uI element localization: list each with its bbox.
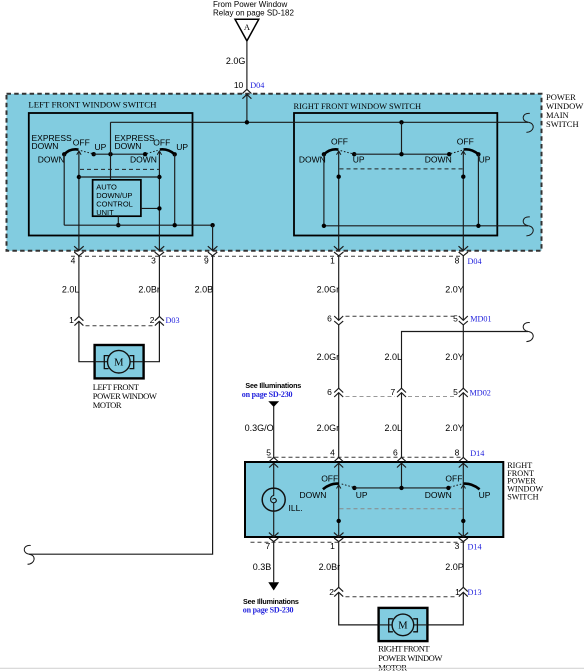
wire labels row 2 [317,352,464,362]
node feed junction [245,120,249,124]
node R2 pivot dot [461,175,465,179]
wire 0.3B drop [273,542,275,583]
svg-text:2.0L: 2.0L [62,285,80,295]
label: See Illuminations top [242,381,302,399]
svg-text:LEFT FRONT WINDOW SWITCH: LEFT FRONT WINDOW SWITCH [28,100,157,110]
wire MD02-6 to D14 [338,393,340,458]
exit cap pin 4 D04 [74,252,83,256]
node R2 down contact [447,152,451,156]
motor M2 right front power window motor [379,608,428,641]
svg-text:1: 1 [330,256,335,266]
node R2 up contact [476,152,480,156]
connector MD02 dashed a [346,396,396,398]
label EXPRESS DOWN s2 [115,133,155,151]
svg-text:RIGHT FRONT: RIGHT FRONT [378,643,430,653]
exit cap pin 1 bottom box [334,538,343,542]
svg-text:POWER WINDOW: POWER WINDOW [378,653,442,663]
wire right bottom bus [324,225,528,227]
continuation squiggle top bus [523,113,533,132]
node bus pin9 junction [210,223,214,227]
wire left center vertical [110,122,112,180]
svg-text:9: 9 [204,256,209,266]
wire R1 pivot drop [338,152,340,250]
mechanical link dashed bottom box [340,508,463,510]
svg-text:2: 2 [329,587,334,597]
svg-text:MOTOR: MOTOR [378,662,407,672]
wire MD01-5 to MD02 [462,325,464,388]
label: POWER WINDOW MAIN SWITCH [546,92,583,129]
svg-text:DOWN: DOWN [130,154,157,164]
connector D03 pin1 arrow [74,321,83,325]
wire 2.0L branch [402,332,529,389]
svg-text:4: 4 [71,256,76,266]
connector MD02 cap x338.7 [334,388,343,392]
svg-text:2.0Br: 2.0Br [319,562,341,572]
exit cap pin 1 D04 [334,252,343,256]
wire AUTO right link [141,207,160,209]
svg-text:UP: UP [176,142,188,152]
pivot caret S1 [77,151,81,155]
dotted throw B [450,484,462,487]
right front power window switch box [245,462,503,537]
pin labels D14 top [266,447,459,457]
entry arrow pin 8 D14 top [459,463,468,467]
svg-text:D14: D14 [468,542,482,551]
wire D13-1 to motor [427,592,463,625]
exit cap pin 3 bottom box [459,538,468,542]
label: See Illuminations bottom [243,597,299,614]
lamp ILL wire bottom [273,503,275,537]
pivot caret R1 [337,151,341,155]
connector pin 10 entry arrow [242,94,251,98]
svg-text:6: 6 [393,447,398,457]
node R1 pivot dot [337,175,341,179]
svg-text:DOWN: DOWN [425,490,452,500]
dotted throw A [342,484,354,487]
svg-text:0.3G/O: 0.3G/O [245,423,274,433]
switch lever arc A [323,484,339,490]
wire A up to B down [354,487,448,489]
dotted throw S1 [81,151,93,154]
svg-text:UP: UP [479,154,491,164]
svg-text:0.3B: 0.3B [253,562,272,572]
label EXPRESS DOWN s1 [32,133,72,151]
svg-text:5: 5 [453,313,458,323]
label: RIGHT FRONT POWER WINDOW MOTOR [378,643,442,672]
left front window switch inner box [29,113,193,236]
svg-text:D14: D14 [470,449,484,458]
svg-text:M: M [398,621,408,632]
wire pin1 to MD01 [338,256,340,320]
node R1 down contact [322,152,326,156]
exit arrow pin 1 bottom box [334,533,344,537]
connector dashed line D04 row [71,255,463,257]
svg-text:2.0Gr: 2.0Gr [317,352,340,362]
svg-text:7: 7 [390,387,395,397]
connector pin 10 entry cap [242,89,251,93]
lamp ILL bulb [262,488,285,511]
entry cap pin 4 D14 top [334,457,343,461]
mechanical link dashed right box [340,168,463,170]
svg-text:OFF: OFF [153,138,170,148]
connector D13 pin1 arrow [459,592,468,596]
svg-text:SWITCH: SWITCH [507,493,538,502]
svg-text:MD02: MD02 [470,388,491,397]
mechanical link dashed left box [80,168,159,170]
wire D14-3 to D13 [462,542,464,588]
svg-text:UP: UP [479,490,491,500]
connector D13 dashed [346,596,457,598]
connector MD01 dashed [346,315,457,317]
node bus up2 junction [173,223,177,227]
wire S2 up drop [174,154,176,225]
svg-text:1: 1 [69,315,74,325]
exit cap pin 9 D04 [208,252,217,256]
switch lever arc B [463,484,480,490]
wire right center drop [401,122,403,154]
connector D13 pin2 arrow [334,592,343,596]
connector D14 bottom dashed [251,541,467,543]
node A up contact [352,486,356,490]
svg-text:DOWN: DOWN [300,490,327,500]
svg-text:10: 10 [234,80,244,90]
wire S1 pivot drop [78,152,80,250]
node pivot link right [157,175,161,179]
svg-text:OFF: OFF [331,137,348,147]
svg-text:DOWN: DOWN [299,154,326,164]
pivot caret R2 [461,151,465,155]
wire MD01-6 to MD02 [338,325,340,388]
connector MD02 cap x463.3 [459,388,468,392]
svg-text:3: 3 [151,256,156,266]
svg-text:on page SD-230: on page SD-230 [243,605,294,614]
page separator line [0,667,584,669]
svg-text:Relay on page SD-182: Relay on page SD-182 [213,8,294,17]
pin labels D04 row [71,256,460,266]
connector MD01 pin6 cap [334,321,343,325]
wire AUTO bottom drop [117,216,119,225]
node left center junction [108,152,112,156]
entry arrow pin 4 D14 top [334,463,343,467]
svg-text:3: 3 [455,541,460,551]
wire labels row 1 [62,285,464,295]
svg-text:OFF: OFF [457,137,474,147]
svg-text:on page SD-230: on page SD-230 [242,390,293,399]
svg-text:2.0P: 2.0P [445,562,464,572]
node bottom pivot B dot [461,519,465,523]
svg-text:UP: UP [95,142,107,152]
wire feed from relay [246,41,248,89]
wire S2 pivot drop [158,152,160,250]
wire S1 up to S2 down [94,153,145,155]
node S2 down contact [143,152,147,156]
svg-text:D03: D03 [166,316,180,325]
wire pin6 center drop [401,463,403,488]
switch lever arc R1 [324,149,339,154]
svg-text:OFF: OFF [321,473,338,483]
connector D03 pin1 cap [74,316,83,320]
svg-text:8: 8 [455,256,460,266]
wire R2 up drop [477,154,479,226]
svg-text:1: 1 [330,541,335,551]
wire pin3 to D03 [158,256,160,317]
power window main switch box [7,94,542,251]
svg-text:DOWN: DOWN [115,141,142,151]
wire D03-1 to motor [79,321,104,361]
node AUTO bottom junction [116,223,120,227]
lamp ILL wire top [273,463,275,496]
node bottom pivot A dot [337,519,341,523]
entry arrow pin 5 D14 top [269,463,278,467]
wire pin 9 drop inside [212,225,214,250]
node right center junction top [399,120,403,124]
svg-text:DOWN: DOWN [38,154,65,164]
connector MD02 arrow x338.7 [334,393,343,397]
continuation squiggle 2.0L [523,323,533,342]
svg-text:2.0Y: 2.0Y [445,352,464,362]
entry arrow pin 6 D14 top [397,463,406,467]
pivot caret A [337,485,341,489]
wire R1 up to R2 down [354,153,449,155]
wire top bus [111,121,529,123]
svg-text:2.0B: 2.0B [195,285,214,295]
svg-text:2.0Y: 2.0Y [445,285,464,295]
svg-text:ILL.: ILL. [289,503,303,513]
node AUTO right junction [157,206,161,210]
svg-text:UNIT: UNIT [96,208,114,217]
svg-text:6: 6 [327,387,332,397]
wire pin9 long drop [29,256,213,554]
exit arrow pin 4 D04 [74,246,84,250]
svg-text:2.0L: 2.0L [384,352,402,362]
arrow source illumination [268,401,279,407]
svg-text:DOWN: DOWN [425,154,452,164]
connector D14 top dashed [268,456,463,458]
pin labels D14 bottom [265,541,459,551]
svg-text:5: 5 [453,387,458,397]
connector D03 pin2 arrow [155,321,164,325]
svg-text:1: 1 [455,587,460,597]
wire pin4 to D03 [78,256,80,317]
svg-text:5: 5 [266,447,271,457]
svg-text:UP: UP [356,490,368,500]
svg-text:OFF: OFF [73,138,90,148]
connector triangle A [235,19,259,41]
node S1 up contact [92,152,96,156]
wire MD02-7 to D14 [401,393,403,458]
node B down contact [446,486,450,490]
svg-text:2.0Gr: 2.0Gr [317,423,340,433]
wire feed inside box [246,94,248,122]
connector MD02 arrow x401.5 [397,393,406,397]
exit arrow pin 7 bottom box [269,533,279,537]
svg-text:D04: D04 [250,81,264,90]
svg-text:2.0Br: 2.0Br [138,285,160,295]
continuation squiggle left end [24,545,34,564]
wire pin4 drop pivot A [338,463,340,537]
connector D03 dashed [86,325,153,327]
svg-text:SWITCH: SWITCH [546,119,579,129]
svg-text:6: 6 [327,313,332,323]
exit arrow pin 3 D04 [155,246,165,250]
svg-text:MOTOR: MOTOR [93,400,122,410]
node right center junction [399,152,403,156]
connector MD02 cap x401.5 [397,388,406,392]
exit cap pin 8 D04 [459,252,468,256]
wire left bottom bus [64,224,212,226]
exit arrow pin 9 D04 [208,246,218,250]
pivot caret B [461,485,465,489]
wire D03-2 to motor [134,321,160,361]
connector D13 pin1 cap [459,587,468,591]
svg-text:2.0G: 2.0G [226,56,246,66]
wire D14-1 to D13 [338,542,340,588]
pivot caret S2 [157,151,161,155]
motor M1 left front power window motor [95,345,144,378]
wire labels row 3 [245,423,464,433]
switch lever arc S2 [160,149,175,154]
exit cap pin 7 bottom box [269,538,278,542]
wire R1 down drop [323,154,325,226]
wire 0.3G/O drop [273,407,275,458]
dotted throw S2 [147,150,158,153]
svg-text:D04: D04 [468,257,482,266]
wire R2 pivot drop [462,152,464,250]
node S1 down contact [62,152,66,156]
entry cap pin 8 D14 top [459,457,468,461]
node R1 up contact [352,152,356,156]
svg-text:8: 8 [455,447,460,457]
connector D03 pin2 cap [155,316,164,320]
dotted throw R1 [341,151,353,154]
auto down/up control unit U1 [93,180,141,217]
exit arrow pin 8 D04 [459,246,469,250]
node S2 up contact [173,152,177,156]
label: From Power Window Relay [213,0,294,17]
node pivot link left [77,175,81,179]
svg-text:7: 7 [265,541,270,551]
exit cap pin 3 D04 [155,252,164,256]
wire S1 down drop [63,154,65,225]
continuation squiggle right bottom bus [523,217,533,236]
connector MD01 pin5 arrow [459,316,468,320]
connector MD01 pin6 arrow [334,316,343,320]
label: LEFT FRONT POWER WINDOW MOTOR [93,382,157,410]
svg-text:DOWN: DOWN [32,141,59,151]
wire pin8 to MD01 [462,256,464,320]
wire pivot link horizontal [79,176,159,178]
connector MD02 dashed b [408,396,456,398]
node bottom center junction [399,486,403,490]
dotted throw R2 [451,150,462,153]
svg-text:MD01: MD01 [470,315,491,324]
svg-text:RIGHT FRONT WINDOW SWITCH: RIGHT FRONT WINDOW SWITCH [294,102,422,111]
svg-text:2.0L: 2.0L [384,423,402,433]
wire pin8 drop pivot B [462,463,464,537]
wire D13-2 to motor [339,592,379,625]
svg-text:4: 4 [330,447,335,457]
svg-text:D13: D13 [468,588,482,597]
svg-text:2.0Y: 2.0Y [445,423,464,433]
node bus R2 up junction [476,224,480,228]
entry cap pin 5 D14 top [269,457,278,461]
entry cap pin 6 D14 top [397,457,406,461]
switch lever arc S1 [64,149,78,154]
connector MD01 pin5 cap [459,321,468,325]
svg-text:OFF: OFF [445,473,462,483]
wire MD02-5 to D14 [462,393,464,458]
label: RIGHT FRONT POWER WINDOW SWITCH [507,461,543,502]
svg-text:2.0Gr: 2.0Gr [317,285,340,295]
svg-text:2: 2 [150,315,155,325]
node bus R1 down junction [322,224,326,228]
switch lever arc R2 [464,149,479,154]
svg-text:A: A [244,22,251,32]
svg-text:M: M [114,358,124,369]
exit arrow pin 1 D04 [334,246,344,250]
connector MD02 arrow x463.3 [459,393,468,397]
connector D13 pin2 cap [334,587,343,591]
arrow to illumination bottom [268,582,279,590]
exit arrow pin 3 bottom box [459,533,469,537]
right front window switch inner box [294,113,497,236]
